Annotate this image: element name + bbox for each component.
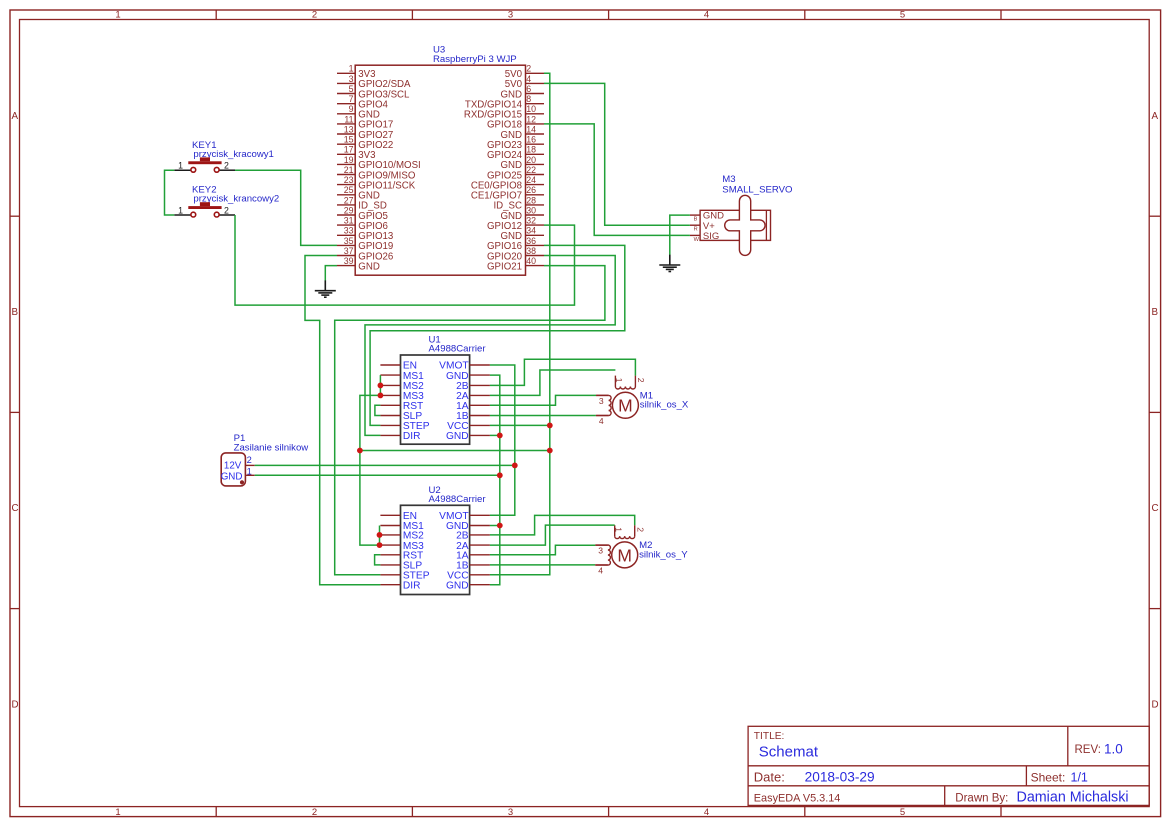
svg-text:1: 1 [613, 527, 623, 532]
svg-text:RaspberryPi 3 WJP: RaspberryPi 3 WJP [433, 54, 517, 65]
svg-text:34: 34 [526, 226, 536, 236]
junction GND rail [497, 472, 503, 478]
wire U3 GPIO21 to U2 STEP [335, 266, 605, 575]
svg-text:3: 3 [349, 74, 354, 84]
frame column numbers bottom [115, 807, 905, 818]
push button KEY1 przycisk_kracowy1 [174, 140, 274, 172]
motor M2 silnik_os_Y [595, 525, 688, 575]
svg-text:19: 19 [344, 155, 354, 165]
svg-text:4: 4 [526, 74, 531, 84]
svg-text:9: 9 [349, 104, 354, 114]
svg-text:23: 23 [344, 175, 354, 185]
wire MS net to 5V0 [360, 450, 550, 452]
wire KEY1 pin1 to KEY2 pin1 [165, 170, 175, 215]
svg-text:1: 1 [349, 64, 354, 74]
svg-text:W: W [694, 237, 700, 243]
svg-text:30: 30 [526, 205, 536, 215]
svg-text:5: 5 [349, 84, 354, 94]
svg-text:26: 26 [526, 185, 536, 195]
svg-text:4: 4 [704, 10, 709, 21]
svg-text:13: 13 [344, 124, 354, 134]
svg-text:5: 5 [900, 10, 905, 21]
junction U2 MS2 [377, 532, 383, 538]
wire U3 GPIO18 to servo SIG [544, 124, 690, 235]
svg-text:silnik_os_Y: silnik_os_Y [639, 549, 688, 560]
title block [748, 726, 1149, 805]
svg-text:DIR: DIR [403, 580, 421, 591]
svg-text:Sheet:: Sheet: [1031, 771, 1066, 785]
svg-text:EasyEDA V5.3.14: EasyEDA V5.3.14 [754, 792, 841, 804]
svg-text:4: 4 [704, 807, 709, 818]
wire U1 2A to M1 pin1 [490, 370, 616, 395]
wire U3 pin39 GND to ground [325, 266, 337, 281]
svg-text:SMALL_SERVO: SMALL_SERVO [722, 184, 792, 195]
frame row letters left [12, 111, 19, 711]
svg-text:1: 1 [247, 467, 252, 477]
svg-text:1: 1 [115, 10, 120, 21]
svg-text:GND: GND [221, 472, 243, 483]
svg-text:1/1: 1/1 [1071, 771, 1088, 785]
junction 12V rail at VMOT [512, 463, 518, 469]
wire GND net U1 to U2 [490, 375, 500, 585]
servo M3 SMALL_SERVO [690, 174, 793, 255]
svg-text:2: 2 [636, 378, 646, 383]
svg-text:8: 8 [526, 94, 531, 104]
wire U3 pin4 5V0 to servo V+ [544, 83, 690, 225]
svg-text:36: 36 [526, 236, 536, 246]
svg-text:17: 17 [344, 145, 354, 155]
wire M2 pin3 lead [595, 544, 608, 546]
svg-text:21: 21 [344, 165, 354, 175]
svg-text:4: 4 [598, 566, 603, 576]
svg-text:2018-03-29: 2018-03-29 [805, 770, 875, 785]
svg-text:D: D [1152, 699, 1159, 710]
wire U2 2B to M2 pin2 [490, 515, 635, 535]
frame column ticks bottom [216, 807, 1001, 817]
wire U3 GPIO26 to U2 DIR [305, 256, 380, 585]
svg-text:TITLE:: TITLE: [754, 731, 785, 742]
svg-text:SIG: SIG [703, 231, 719, 242]
wire servo GND to ground [670, 215, 690, 255]
svg-text:12V: 12V [224, 461, 242, 472]
svg-text:28: 28 [526, 195, 536, 205]
wire U2 MS1-MS2-MS3 tie [379, 526, 381, 546]
wire P1 GND rail [255, 474, 500, 476]
svg-text:35: 35 [344, 236, 354, 246]
wire U3 GPIO16 to U1 STEP [370, 245, 625, 425]
wire KEY1 pin2 to U3 GPIO19 [235, 170, 337, 245]
svg-text:14: 14 [526, 124, 536, 134]
wire M1 pin4 lead [596, 415, 609, 417]
svg-text:16: 16 [526, 135, 536, 145]
svg-text:2: 2 [224, 205, 229, 215]
svg-text:silnik_os_X: silnik_os_X [640, 400, 689, 411]
svg-text:40: 40 [526, 256, 536, 266]
svg-text:M: M [618, 396, 633, 416]
svg-text:38: 38 [526, 246, 536, 256]
wire U1 2B to M1 pin2 [490, 359, 636, 385]
connector P1 Zasilanie silnikow [221, 433, 309, 486]
junction MS net at 5V link [357, 448, 363, 454]
svg-text:2: 2 [635, 527, 645, 532]
wire P1 12V rail [255, 464, 515, 466]
junction U1 GND bottom [497, 433, 503, 439]
frame row letters right [1152, 111, 1159, 711]
svg-text:12: 12 [526, 114, 536, 124]
svg-text:GND: GND [446, 431, 469, 442]
svg-text:5: 5 [900, 807, 905, 818]
IC U1 A4988Carrier [380, 335, 490, 445]
IC U3 RaspberryPi 3 WJP [337, 44, 544, 275]
wire U1 1A to M1 pin3 [490, 395, 596, 405]
wire U2 GND right stub [490, 525, 500, 527]
svg-text:3: 3 [598, 545, 603, 555]
wire U2 RST to SLP [375, 555, 381, 565]
svg-text:37: 37 [344, 246, 354, 256]
svg-text:Zasilanie silnikow: Zasilanie silnikow [234, 442, 309, 453]
svg-text:A4988Carrier: A4988Carrier [429, 344, 487, 355]
svg-text:18: 18 [526, 145, 536, 155]
svg-text:33: 33 [344, 226, 354, 236]
svg-text:1: 1 [115, 807, 120, 818]
svg-text:B: B [12, 307, 19, 318]
junction U1 VCC at 5V0 [547, 423, 553, 429]
svg-text:22: 22 [526, 165, 536, 175]
ground at servo [659, 255, 680, 272]
svg-text:A4988Carrier: A4988Carrier [429, 494, 487, 505]
wire U1 RST to SLP [375, 405, 381, 415]
svg-text:Damian Michalski: Damian Michalski [1017, 790, 1129, 806]
svg-text:A: A [1152, 111, 1159, 122]
wire U2 1B to M2 pin4 [490, 564, 595, 566]
wire U1 VCC to 5V0 [490, 424, 550, 426]
svg-text:1: 1 [178, 205, 183, 215]
frame row ticks right [1149, 216, 1160, 608]
wire M1 pin3 lead [596, 394, 609, 396]
svg-text:31: 31 [344, 216, 354, 226]
svg-text:3: 3 [508, 10, 513, 21]
svg-text:GPIO21: GPIO21 [487, 261, 522, 272]
svg-text:C: C [12, 503, 19, 514]
wire U2 2A to M2 pin1 [490, 525, 615, 545]
svg-text:Drawn By:: Drawn By: [955, 792, 1008, 804]
svg-text:1: 1 [178, 161, 183, 171]
svg-text:29: 29 [344, 205, 354, 215]
push button KEY2 przycisk_krancowy2 [174, 185, 279, 217]
svg-text:3: 3 [599, 396, 604, 406]
wire VMOT net U1 to U2 [490, 365, 515, 515]
svg-text:B: B [694, 217, 698, 223]
wire KEY2 pin2 to U3 GPIO12 [235, 215, 575, 305]
wire M2 pin4 lead [595, 564, 608, 566]
svg-text:39: 39 [344, 256, 354, 266]
wire U1 MS1-MS2-MS3 tie [379, 375, 381, 395]
junction U2 MS3 [377, 542, 383, 548]
wire U1 GND bottom stub [490, 434, 500, 436]
svg-text:C: C [1152, 503, 1159, 514]
motor M1 silnik_os_X [596, 376, 689, 426]
svg-text:D: D [12, 699, 19, 710]
svg-text:2: 2 [312, 807, 317, 818]
wire U1 1B to M1 pin4 [490, 415, 596, 417]
svg-text:REV:: REV: [1075, 744, 1101, 756]
svg-text:4: 4 [599, 416, 604, 426]
junction U1 MS3 [378, 393, 384, 399]
frame column numbers top [115, 10, 905, 21]
IC U2 A4988Carrier [380, 485, 490, 595]
junction U1 MS2 [378, 383, 384, 389]
wire U3 pin2 5V0 to U2 VCC [490, 73, 550, 575]
svg-text:1.0: 1.0 [1104, 741, 1123, 756]
svg-text:M: M [617, 545, 632, 565]
wire U2 1A to M2 pin3 [490, 545, 596, 555]
svg-text:25: 25 [344, 185, 354, 195]
svg-text:GND: GND [446, 580, 469, 591]
junction 5V0 at MS link [547, 448, 553, 454]
svg-text:GND: GND [358, 261, 380, 272]
svg-text:20: 20 [526, 155, 536, 165]
svg-text:R: R [694, 227, 698, 233]
svg-text:7: 7 [349, 94, 354, 104]
svg-text:DIR: DIR [403, 431, 421, 442]
frame row ticks left [10, 216, 20, 608]
svg-text:Date:: Date: [754, 770, 785, 785]
svg-text:A: A [12, 111, 19, 122]
svg-text:27: 27 [344, 195, 354, 205]
svg-text:Schemat: Schemat [759, 743, 819, 760]
svg-text:1: 1 [614, 378, 624, 383]
svg-text:11: 11 [344, 114, 353, 124]
svg-text:3: 3 [508, 807, 513, 818]
svg-text:2: 2 [247, 455, 252, 465]
wire U3 GPIO20 to U1 DIR [365, 256, 615, 436]
svg-text:10: 10 [526, 104, 536, 114]
junction U2 GND right [497, 523, 503, 529]
svg-text:2: 2 [312, 10, 317, 21]
svg-text:24: 24 [526, 175, 536, 185]
wire U1 MS3 to 5V net [360, 395, 381, 545]
svg-text:15: 15 [344, 135, 354, 145]
svg-text:B: B [1152, 307, 1159, 318]
ground at U3 pin39 [315, 280, 336, 297]
svg-text:32: 32 [526, 216, 536, 226]
svg-text:2: 2 [224, 161, 229, 171]
svg-text:2: 2 [526, 64, 531, 74]
svg-text:6: 6 [526, 84, 531, 94]
frame column ticks top [216, 10, 1001, 20]
